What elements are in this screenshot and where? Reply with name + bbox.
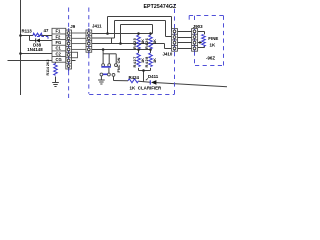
svg-text:47: 47 <box>44 28 49 33</box>
svg-text:1K: 1K <box>152 39 157 44</box>
svg-text:R425: R425 <box>132 37 137 49</box>
svg-text:R426: R426 <box>144 37 149 49</box>
svg-text:1N4148: 1N4148 <box>27 47 43 52</box>
svg-text:C2: C2 <box>56 51 62 56</box>
svg-text:CG: CG <box>56 57 62 62</box>
svg-text:F1: F1 <box>56 29 62 34</box>
svg-text:R113: R113 <box>22 28 33 33</box>
svg-text:FNC ON: FNC ON <box>116 57 121 72</box>
svg-text:EPT25474GZ: EPT25474GZ <box>144 4 177 10</box>
svg-text:C1: C1 <box>56 46 62 51</box>
svg-text:J411: J411 <box>92 24 102 29</box>
svg-text:CLARIFIER: CLARIFIER <box>138 85 162 90</box>
svg-text:R427: R427 <box>132 56 137 67</box>
svg-text:FG: FG <box>56 40 62 45</box>
svg-text:J410: J410 <box>163 52 173 57</box>
svg-text:D411: D411 <box>148 74 159 79</box>
svg-text:J9: J9 <box>70 24 75 29</box>
svg-text:R114 2K2: R114 2K2 <box>46 60 50 76</box>
svg-text:1K: 1K <box>152 58 157 63</box>
svg-text:1K: 1K <box>210 42 216 47</box>
svg-text:R424: R424 <box>129 75 140 80</box>
svg-text:F2: F2 <box>56 34 62 39</box>
svg-text:FINE: FINE <box>208 36 218 41</box>
svg-text:J903: J903 <box>193 24 203 29</box>
svg-text:1K: 1K <box>130 85 136 90</box>
svg-text:-96Z: -96Z <box>206 55 215 60</box>
svg-text:R428: R428 <box>144 56 149 68</box>
